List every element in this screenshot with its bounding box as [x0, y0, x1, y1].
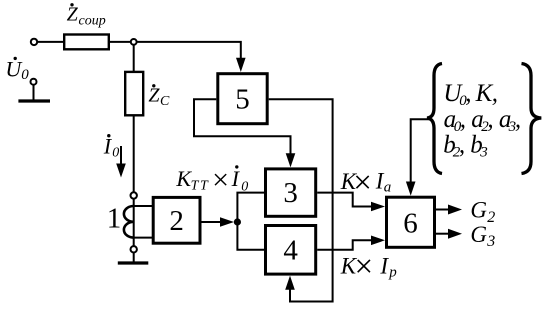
svg-text:0: 0 [21, 67, 29, 83]
arrowhead into box 5 top [236, 58, 246, 72]
terminal circle U0 [31, 79, 37, 85]
label KTT x I0 [175, 164, 248, 197]
wire box4 to box6 with arrowhead [317, 240, 372, 250]
current arrow I0 [120, 146, 122, 164]
wire brace to box6 top with arrowhead [411, 119, 430, 182]
box 3 [266, 169, 316, 216]
ground bar (U0) [18, 99, 50, 102]
box 4 [266, 226, 316, 275]
wire box5 right down to box4 bottom with arrowhead [269, 99, 333, 301]
wire ZC down to ground (transformer primary) [133, 115, 135, 261]
svg-text:0: 0 [241, 179, 248, 194]
ground bar (transformer) [118, 261, 149, 264]
wire node to box4 [237, 222, 264, 250]
label I0 [103, 133, 119, 160]
svg-text:Z: Z [148, 85, 160, 107]
svg-text:I: I [379, 253, 389, 278]
svg-text:×: × [355, 249, 374, 285]
svg-text:4: 4 [283, 234, 298, 266]
wire Zcoup to box5 top corner [109, 42, 241, 60]
wire box3 to box6 with arrowhead [317, 193, 372, 207]
svg-text:TT: TT [191, 179, 210, 194]
svg-text:2: 2 [487, 209, 495, 226]
svg-text:p: p [388, 265, 397, 281]
node: junction dot [234, 218, 241, 225]
label G2 [470, 198, 495, 226]
box 5 [218, 74, 267, 124]
svg-text:K: K [475, 80, 494, 107]
svg-text:1: 1 [107, 202, 122, 234]
label ZC [148, 84, 170, 109]
label K x Ip [340, 249, 397, 285]
svg-text:G: G [470, 198, 487, 223]
label G3 [470, 222, 495, 250]
brace text line 2: a0, a2, a3, [444, 106, 522, 135]
brace text line 3: b2, b3 [443, 132, 488, 161]
svg-text:a: a [384, 179, 392, 195]
svg-text:×: × [212, 164, 229, 197]
svg-text:coup: coup [79, 14, 106, 29]
svg-text:,: , [487, 106, 493, 133]
svg-text:2: 2 [169, 205, 184, 237]
wire box6 output 2 with arrowhead [436, 233, 449, 235]
node: junction open circle [131, 39, 137, 45]
label Zcoup [67, 3, 106, 29]
svg-text:3: 3 [283, 177, 298, 209]
svg-text:Z: Z [67, 3, 79, 25]
svg-text:0: 0 [112, 146, 119, 161]
wire junction down to ZC [133, 42, 135, 72]
box 6 [387, 197, 435, 247]
resistor Zcoup [64, 35, 109, 50]
svg-text:,: , [492, 80, 498, 107]
transformer stub wires to box 2 [134, 205, 152, 207]
svg-text:3: 3 [479, 145, 488, 161]
wire box6 output 1 with arrowhead [436, 209, 449, 211]
svg-text:,: , [515, 106, 521, 133]
wire terminal to Zcoup [37, 41, 63, 43]
svg-text:,: , [459, 132, 465, 159]
wire box5 left loop to box3 with arrowhead [194, 99, 291, 154]
svg-text:,: , [465, 80, 471, 107]
brace text line 1: U0, K, [443, 80, 498, 109]
svg-text:G: G [470, 222, 487, 247]
svg-text:3: 3 [486, 233, 495, 250]
svg-text:,: , [460, 106, 466, 133]
wire node to box3 [237, 193, 264, 222]
transformer bottom terminal circle [131, 246, 137, 252]
right brace [522, 64, 542, 174]
resistor ZC [125, 72, 143, 115]
svg-text:5: 5 [235, 83, 250, 115]
wire box2 to node with arrowhead [202, 221, 222, 223]
label U0 [5, 57, 29, 83]
svg-text:×: × [353, 165, 372, 201]
transformer coil arcs [124, 206, 134, 238]
box 2 [153, 197, 200, 243]
terminal circle (input) [31, 39, 37, 45]
transformer top terminal circle [131, 192, 137, 198]
wire U0 terminal to ground [33, 85, 35, 100]
svg-text:6: 6 [403, 207, 418, 239]
label K x Ia [340, 165, 392, 201]
svg-text:C: C [160, 94, 170, 109]
left brace [427, 64, 442, 174]
